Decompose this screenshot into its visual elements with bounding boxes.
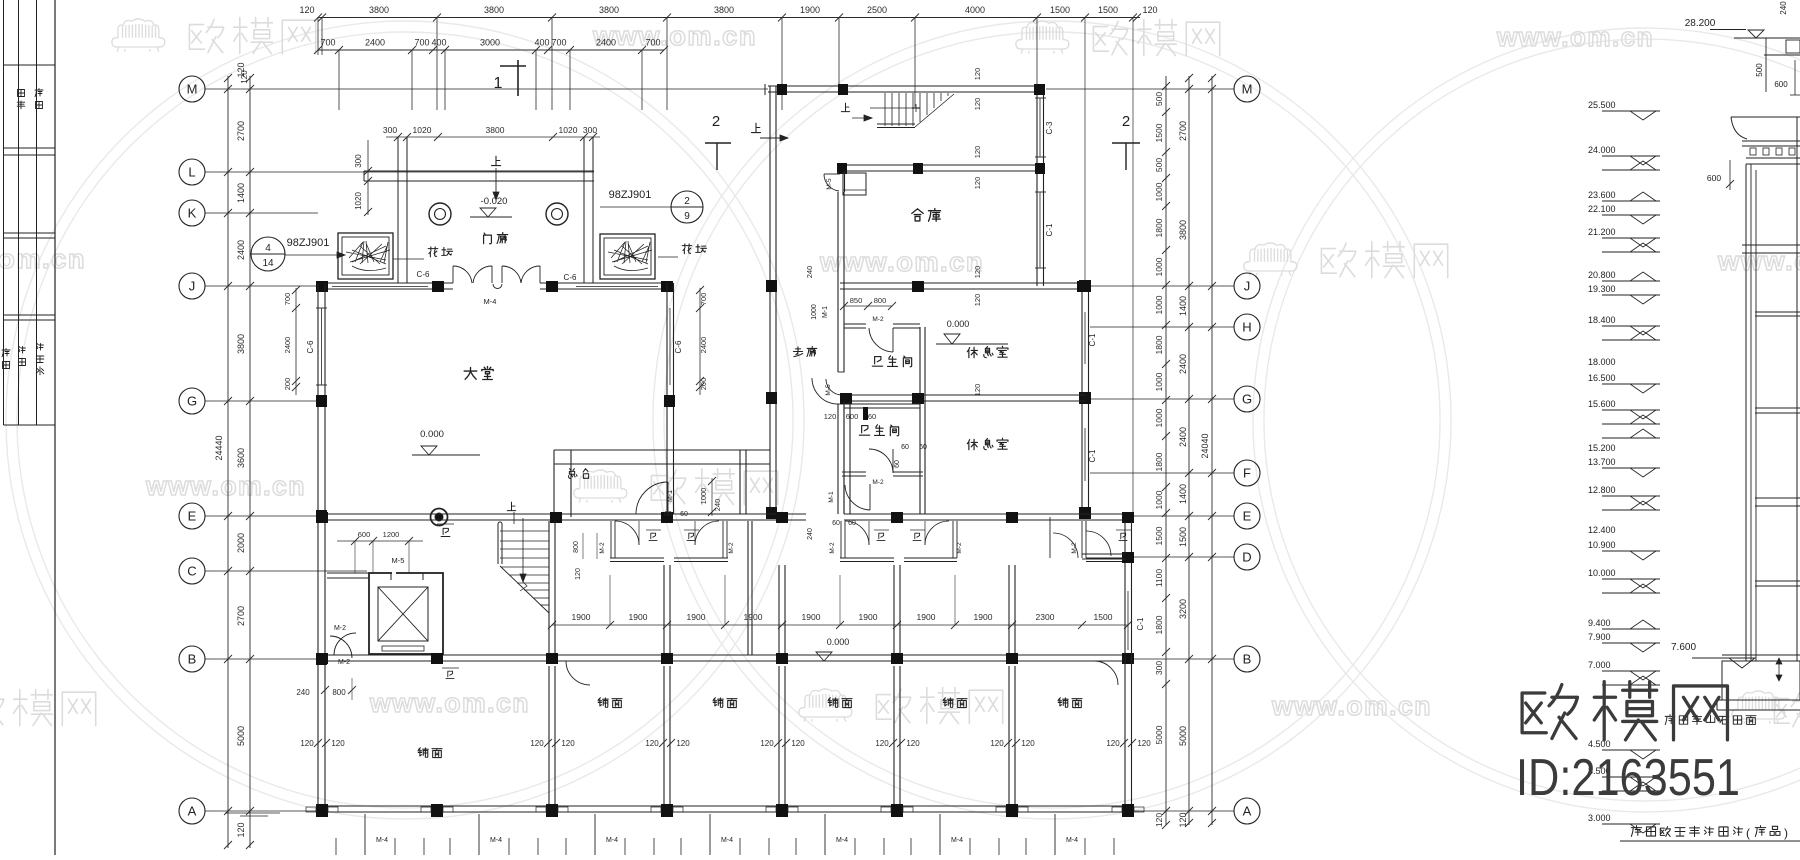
svg-text:3800: 3800 <box>599 5 619 15</box>
facade base pedestal <box>1722 654 1800 656</box>
svg-text:C-1: C-1 <box>1088 333 1097 346</box>
svg-text:3.000: 3.000 <box>1588 813 1611 823</box>
wall J-line warehouse bottom <box>840 282 1086 284</box>
elevation level 22.100 <box>1602 214 1660 216</box>
svg-text:240: 240 <box>296 688 310 697</box>
wall corridor right x838 <box>837 192 839 372</box>
wall upper wing right x1037 <box>1036 86 1038 286</box>
svg-text:9.400: 9.400 <box>1588 618 1611 628</box>
svg-text:120: 120 <box>824 412 837 421</box>
svg-text:M-4: M-4 <box>721 837 733 844</box>
flowerbed left <box>338 233 393 279</box>
elevation level 19.300 <box>1602 294 1660 296</box>
svg-text:700: 700 <box>283 293 292 306</box>
svg-text:120: 120 <box>1021 739 1035 748</box>
svg-text:J: J <box>189 279 196 294</box>
svg-text:240: 240 <box>805 266 814 279</box>
svg-text:1400: 1400 <box>236 183 246 203</box>
svg-text:1900: 1900 <box>802 612 821 622</box>
wall lobby left x318 <box>317 283 319 816</box>
window C-1 upper <box>1036 192 1038 268</box>
svg-text:12.800: 12.800 <box>1588 485 1616 495</box>
svg-text:C-1: C-1 <box>1136 617 1145 630</box>
door M-2 at B wall left <box>334 633 356 655</box>
svg-text:M: M <box>187 82 198 97</box>
shang label upper stairs <box>841 103 849 112</box>
porch column right <box>546 203 568 225</box>
top dimension row 1 <box>318 17 1140 19</box>
svg-text:120: 120 <box>236 822 246 837</box>
svg-text:120: 120 <box>973 177 982 190</box>
svg-text:): ) <box>1784 826 1788 840</box>
svg-text:1800: 1800 <box>1154 218 1164 237</box>
wall J-line lobby top <box>318 282 453 284</box>
lower toilet walls <box>843 401 845 514</box>
door arcs B-wall shops <box>566 661 590 685</box>
svg-text:E: E <box>1243 509 1252 524</box>
wei labels stalls <box>649 533 657 540</box>
toilet stall row walls <box>610 521 612 558</box>
cornice <box>1731 116 1800 118</box>
title block label jiegou <box>19 347 26 354</box>
svg-text:M-2: M-2 <box>872 316 884 323</box>
svg-text:120: 120 <box>973 98 982 111</box>
flowerbed left plants <box>346 241 390 271</box>
wall top wing M-line <box>768 85 1043 87</box>
svg-text:4000: 4000 <box>965 5 985 15</box>
elevation level 15.600 <box>1602 409 1660 411</box>
svg-text:M-1: M-1 <box>667 490 674 502</box>
column lobby right <box>664 395 675 407</box>
toilet top wall H <box>844 323 866 325</box>
svg-text:2: 2 <box>684 196 690 207</box>
svg-text:60: 60 <box>919 444 927 451</box>
elevator shaft <box>369 573 443 654</box>
columns B-line <box>316 653 328 664</box>
svg-text:1900: 1900 <box>572 612 591 622</box>
zoulang label <box>793 347 802 357</box>
svg-text:2400: 2400 <box>283 337 292 354</box>
svg-text:M-4: M-4 <box>490 837 502 844</box>
columns top wing M-line <box>777 84 787 95</box>
watermark giant circle right <box>1253 28 1800 812</box>
svg-text:M-4: M-4 <box>606 837 618 844</box>
svg-text:7.900: 7.900 <box>1588 632 1611 642</box>
cangku label <box>912 209 923 221</box>
svg-text:400: 400 <box>431 38 446 48</box>
svg-text:200: 200 <box>283 378 292 391</box>
svg-text:www.om.cn: www.om.cn <box>1271 691 1432 721</box>
windows lobby top wall <box>332 286 428 288</box>
svg-text:18.400: 18.400 <box>1588 315 1616 325</box>
svg-text:24040: 24040 <box>1200 433 1210 458</box>
svg-text:2300: 2300 <box>1036 612 1055 622</box>
svg-text:M-4: M-4 <box>1066 837 1078 844</box>
wall lower right x1125 <box>1124 521 1126 806</box>
svg-text:1800: 1800 <box>1154 615 1164 634</box>
svg-text:L: L <box>188 165 195 180</box>
svg-text:3800: 3800 <box>1178 220 1188 240</box>
svg-text:1000: 1000 <box>1154 182 1164 201</box>
svg-text:120: 120 <box>791 739 805 748</box>
svg-text:21.200: 21.200 <box>1588 227 1616 237</box>
elevation level 3.500 <box>1602 776 1660 778</box>
svg-text:M-4: M-4 <box>836 837 848 844</box>
svg-text:120: 120 <box>331 739 345 748</box>
svg-text:600: 600 <box>1774 80 1788 89</box>
svg-text:M-2: M-2 <box>1071 542 1078 554</box>
wei symbol shop1 <box>441 528 450 536</box>
stone veneer label <box>1665 715 1675 725</box>
svg-text:7.000: 7.000 <box>1588 660 1611 670</box>
svg-text:600: 600 <box>358 530 371 539</box>
floor band 3 <box>1755 407 1800 409</box>
svg-text:300: 300 <box>583 125 597 135</box>
columns mid wing right <box>1079 280 1091 292</box>
section mark 1 top <box>500 65 526 67</box>
svg-text:2700: 2700 <box>1178 121 1188 141</box>
svg-text:1000: 1000 <box>1154 257 1164 276</box>
svg-text:D: D <box>1242 550 1251 565</box>
svg-text:M-2: M-2 <box>334 625 346 632</box>
svg-text:120: 120 <box>906 739 920 748</box>
svg-text:1000: 1000 <box>699 488 708 505</box>
svg-text:M-2: M-2 <box>599 542 606 554</box>
svg-text:600: 600 <box>846 412 859 421</box>
watermark logo partial bottom-left-edge <box>0 691 4 724</box>
svg-text:1900: 1900 <box>917 612 936 622</box>
svg-text:1900: 1900 <box>859 612 878 622</box>
window C-6 left wall <box>317 308 319 385</box>
door M-2 lower toilet <box>892 449 894 473</box>
parapet coping detail <box>1734 37 1800 39</box>
columns lobby top wall <box>316 281 328 292</box>
svg-text:1500: 1500 <box>1094 612 1113 622</box>
svg-text:60: 60 <box>868 412 876 421</box>
svg-text:1100: 1100 <box>1154 569 1164 588</box>
svg-text:K: K <box>188 206 197 221</box>
wall E-line <box>318 513 560 515</box>
svg-text:14: 14 <box>262 258 274 269</box>
svg-text:M-5: M-5 <box>825 384 832 396</box>
svg-text:3800: 3800 <box>369 5 389 15</box>
svg-text:60: 60 <box>894 460 901 468</box>
svg-text:500: 500 <box>1755 63 1764 77</box>
svg-text:700: 700 <box>645 38 660 48</box>
svg-text:C-1: C-1 <box>1045 223 1054 236</box>
wall B-line <box>318 654 1134 656</box>
svg-text:1000: 1000 <box>1154 295 1164 314</box>
svg-text:B: B <box>188 652 197 667</box>
watermark logo mid-right <box>1244 243 1297 276</box>
svg-text:120: 120 <box>1142 5 1157 15</box>
door M-1 corridor vestibule <box>869 484 871 510</box>
svg-text:28.200: 28.200 <box>1685 18 1716 29</box>
svg-text:24.000: 24.000 <box>1588 145 1616 155</box>
svg-text:1400: 1400 <box>1178 296 1188 316</box>
svg-text:M-5: M-5 <box>826 178 833 190</box>
stall doors group 897 <box>845 521 869 545</box>
svg-text:M-5: M-5 <box>392 556 405 565</box>
door corridor to toilet <box>812 378 838 404</box>
bottom ground lines <box>225 812 280 814</box>
svg-text:2400: 2400 <box>699 337 708 354</box>
zongtai label <box>569 469 577 479</box>
watermark logo partial bottom-far-right <box>1732 691 1785 724</box>
svg-text:C-3: C-3 <box>1045 121 1054 134</box>
svg-text:1000: 1000 <box>811 304 818 320</box>
svg-text:1800: 1800 <box>1154 452 1164 471</box>
svg-text:3800: 3800 <box>236 334 246 354</box>
elevation level 7.000 <box>1602 670 1660 672</box>
wall shop partitions <box>548 666 550 806</box>
watermark logo bottom-center <box>799 689 852 722</box>
svg-text:M: M <box>1242 82 1253 97</box>
toilet stall shelves <box>610 557 664 559</box>
columns E-line <box>316 512 328 523</box>
pilaster verticals <box>1745 164 1747 661</box>
D-line wall right <box>1082 553 1125 555</box>
stairs lower <box>497 524 499 564</box>
cornice dentils <box>1750 148 1756 155</box>
svg-text:4.500: 4.500 <box>1588 739 1611 749</box>
svg-text:700: 700 <box>551 38 566 48</box>
svg-text:22.100: 22.100 <box>1588 204 1616 214</box>
svg-text:2500: 2500 <box>867 5 887 15</box>
columns left wall <box>316 395 327 407</box>
svg-text:800: 800 <box>573 541 580 553</box>
wall G-line <box>844 394 1086 396</box>
svg-text:120: 120 <box>973 68 982 81</box>
elevation level 16.500 <box>1602 383 1660 385</box>
dim row 1900 shops <box>552 624 1128 626</box>
stall door group 1128 <box>1086 531 1111 556</box>
svg-text:700: 700 <box>320 38 335 48</box>
svg-text:120: 120 <box>299 5 314 15</box>
columns J warehouse <box>912 281 924 292</box>
svg-text:240: 240 <box>1779 1 1788 15</box>
elevation level 10.900 <box>1602 550 1660 552</box>
flowerbed right <box>600 234 655 279</box>
column upper wing right <box>1035 163 1045 174</box>
svg-text:C-1: C-1 <box>1088 449 1097 462</box>
svg-text:(: ( <box>1746 826 1750 840</box>
svg-text:200: 200 <box>699 378 708 391</box>
svg-text:120: 120 <box>760 739 774 748</box>
svg-text:1500: 1500 <box>1050 5 1070 15</box>
svg-text:120: 120 <box>575 568 582 580</box>
svg-text:5000: 5000 <box>1178 726 1188 746</box>
svg-text:1200: 1200 <box>383 530 400 539</box>
svg-text:120: 120 <box>240 70 249 84</box>
xiuxishi lower label <box>967 439 977 449</box>
svg-text:240: 240 <box>713 499 722 512</box>
svg-text:1000: 1000 <box>1154 490 1164 509</box>
svg-text:120: 120 <box>973 294 982 307</box>
svg-text:2700: 2700 <box>236 606 246 626</box>
svg-text:4: 4 <box>265 243 271 254</box>
svg-text:M-2: M-2 <box>338 659 350 666</box>
svg-text:10.000: 10.000 <box>1588 568 1616 578</box>
svg-text:300: 300 <box>354 154 363 168</box>
elevation level 7.900 <box>1602 642 1660 644</box>
title block frame <box>3 0 5 425</box>
svg-text:700: 700 <box>414 38 429 48</box>
top dimension row 2 <box>318 49 664 51</box>
svg-text:120: 120 <box>1137 739 1151 748</box>
svg-text:www.om.cn: www.om.cn <box>369 688 530 718</box>
elevation level 12.800 <box>1602 495 1660 497</box>
svg-text:G: G <box>1242 392 1252 407</box>
svg-text:2: 2 <box>712 113 720 130</box>
svg-text:C-6: C-6 <box>674 340 683 353</box>
stairs upper wing <box>884 93 886 126</box>
svg-text:1900: 1900 <box>744 612 763 622</box>
ground line bottom right <box>1620 840 1800 842</box>
svg-text:98ZJ901: 98ZJ901 <box>287 237 330 249</box>
svg-text:19.300: 19.300 <box>1588 284 1616 294</box>
left grid dimension chain lines <box>227 76 229 848</box>
svg-text:23.600: 23.600 <box>1588 190 1616 200</box>
elevation level 18.400 <box>1602 325 1660 327</box>
watermark logo center <box>574 470 627 503</box>
svg-text:500: 500 <box>1154 92 1164 106</box>
reception zongtai outline <box>554 449 770 451</box>
window C-6 right wall <box>666 308 668 385</box>
svg-text:www.om.cn: www.om.cn <box>0 244 86 274</box>
svg-text:J: J <box>1244 279 1251 294</box>
svg-text:120: 120 <box>875 739 889 748</box>
svg-text:500: 500 <box>1154 158 1164 172</box>
svg-text:2400: 2400 <box>365 38 385 48</box>
shop labels <box>598 698 608 708</box>
door M-5 corridor side <box>826 379 842 395</box>
svg-text:15.200: 15.200 <box>1588 443 1616 453</box>
bottom right caption <box>1631 826 1641 837</box>
svg-text:98ZJ901: 98ZJ901 <box>609 189 652 201</box>
weishengjian lower label <box>859 426 869 436</box>
porch dimension row <box>386 136 600 138</box>
svg-text:3800: 3800 <box>484 5 504 15</box>
svg-text:120: 120 <box>973 384 982 397</box>
svg-text:1400: 1400 <box>1178 484 1188 504</box>
floor band 1 <box>1742 244 1800 246</box>
svg-text:3000: 3000 <box>480 38 500 48</box>
title block label jianzhu <box>2 349 10 357</box>
svg-text:1020: 1020 <box>354 192 363 210</box>
elevation level 10.000 <box>1602 578 1660 580</box>
svg-text:E: E <box>188 509 197 524</box>
elevation level 13.700 <box>1602 467 1660 469</box>
svg-text:2000: 2000 <box>236 533 246 553</box>
svg-text:C-6: C-6 <box>306 340 315 353</box>
svg-text:F: F <box>1243 466 1251 481</box>
wall toilet right x920 <box>919 327 921 514</box>
svg-text:400: 400 <box>534 38 549 48</box>
elevation level 3.000 <box>1602 823 1660 825</box>
svg-text:0.000: 0.000 <box>947 319 970 329</box>
svg-text:M-2: M-2 <box>872 479 884 486</box>
svg-text:1500: 1500 <box>1154 526 1164 545</box>
svg-text:A: A <box>188 804 197 819</box>
floor band 4 <box>1755 497 1800 499</box>
watermark logo top-left <box>112 19 165 52</box>
svg-text:1900: 1900 <box>687 612 706 622</box>
svg-text:1000: 1000 <box>1154 372 1164 391</box>
svg-text:1900: 1900 <box>629 612 648 622</box>
porch left dim chain <box>367 140 369 215</box>
porch side walls <box>397 137 399 283</box>
svg-text:1020: 1020 <box>413 125 432 135</box>
svg-text:2: 2 <box>1122 113 1130 130</box>
svg-text:60: 60 <box>832 520 840 527</box>
elevator lobby wall <box>327 572 369 574</box>
weishengjian upper label <box>872 357 882 367</box>
door M-2 elevator lobby <box>330 636 352 658</box>
porch column left <box>429 203 451 225</box>
svg-text:10.900: 10.900 <box>1588 540 1616 550</box>
elevation level 4.500 <box>1602 749 1660 751</box>
svg-text:2400: 2400 <box>1178 354 1188 374</box>
svg-text:3200: 3200 <box>1178 599 1188 619</box>
wall F-line toilet bottom <box>842 471 866 473</box>
svg-text:240: 240 <box>807 528 814 540</box>
wall warehouse top <box>841 164 1043 166</box>
svg-text:M-2: M-2 <box>829 542 836 554</box>
svg-text:800: 800 <box>874 296 887 305</box>
svg-text:60: 60 <box>901 444 909 451</box>
svg-text:60: 60 <box>664 511 672 518</box>
elevation level 24.000 <box>1602 155 1660 157</box>
arrow up porch <box>491 156 500 165</box>
columns corridor left <box>766 280 777 292</box>
svg-text:1000: 1000 <box>1154 408 1164 427</box>
window C-1 mid right upper <box>1081 312 1083 364</box>
svg-text:-0.020: -0.020 <box>481 196 508 207</box>
window C-1 mid right lower <box>1081 428 1083 481</box>
svg-text:C-6: C-6 <box>564 273 577 282</box>
menlang label <box>484 233 492 244</box>
svg-text:1: 1 <box>494 75 503 92</box>
left wall window dim chain <box>295 288 297 395</box>
svg-text:2400: 2400 <box>236 240 246 260</box>
svg-text:M-1: M-1 <box>822 306 829 318</box>
svg-text:120: 120 <box>973 266 982 279</box>
dims reception <box>711 478 713 516</box>
svg-text:12.400: 12.400 <box>1588 525 1616 535</box>
svg-text:www.om.cn: www.om.cn <box>1496 22 1654 52</box>
svg-text:0.000: 0.000 <box>827 637 850 647</box>
svg-text:M-4: M-4 <box>951 837 963 844</box>
huatan label left <box>428 247 438 257</box>
svg-text:5000: 5000 <box>1154 725 1164 744</box>
stairwell right wall <box>548 521 550 653</box>
floor band 5 <box>1755 580 1800 582</box>
stall doors group 667 <box>615 521 639 545</box>
svg-text:300: 300 <box>1154 661 1164 675</box>
round column lobby <box>431 509 448 526</box>
right grid dimension chain lines <box>1165 76 1167 825</box>
svg-text:7.600: 7.600 <box>1671 642 1696 653</box>
wei symbol near B <box>446 671 454 678</box>
wall corridor left x770 <box>769 86 771 514</box>
svg-text:2400: 2400 <box>1178 427 1188 447</box>
svg-text:24440: 24440 <box>214 435 224 460</box>
svg-text:3800: 3800 <box>714 5 734 15</box>
svg-text:M-4: M-4 <box>484 297 497 306</box>
svg-text:1500: 1500 <box>1154 123 1164 142</box>
vestibule wall x748 <box>747 521 749 655</box>
